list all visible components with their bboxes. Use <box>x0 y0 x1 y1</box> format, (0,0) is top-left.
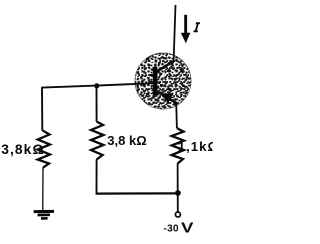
svg-text:3,8kΩ: 3,8kΩ <box>1 142 44 157</box>
svg-text:-30: -30 <box>164 223 179 234</box>
svg-text:V: V <box>181 219 194 236</box>
svg-text:1,1kΩ: 1,1kΩ <box>178 139 213 154</box>
svg-text:3,8 kΩ: 3,8 kΩ <box>107 133 146 148</box>
